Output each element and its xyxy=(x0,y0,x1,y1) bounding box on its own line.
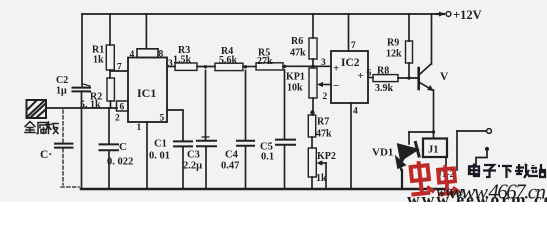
wire emitter to diode top xyxy=(409,131,434,133)
wire R3 to R4 xyxy=(197,66,215,68)
resistor R2 xyxy=(107,78,114,108)
node emitter-diode junction xyxy=(432,130,435,133)
wire IC1 pin5 to C1 xyxy=(167,110,183,141)
watermark site name (Chinese, dark) xyxy=(469,164,546,179)
node KP1-R7 junction xyxy=(310,110,314,114)
node R6-KP1 junction xyxy=(311,65,314,68)
wire R4 to R5 xyxy=(243,66,256,68)
wire metal plate to IC1 pin6/R2 node xyxy=(46,107,117,109)
metal plate sensor xyxy=(27,100,47,118)
capacitor C5 xyxy=(276,140,295,189)
op-amp IC2 xyxy=(331,14,373,189)
wire node B down to C4 xyxy=(245,70,247,140)
watermark bug 2 (Chinese chong, red) xyxy=(436,164,459,194)
node R5/C5 junction xyxy=(283,65,286,68)
node +12V terminal xyxy=(437,12,451,17)
glyph zhan xyxy=(530,164,546,177)
wire left rail down to C2 xyxy=(81,14,83,86)
capacitor C3 electrolytic xyxy=(197,134,216,190)
resistor R6 xyxy=(309,14,317,66)
label metal plate (Chinese) xyxy=(25,122,58,134)
capacitor C' (stray, dashed) xyxy=(55,110,79,187)
glyph dian xyxy=(469,164,480,177)
resistor R8 xyxy=(373,75,417,82)
watermark bug 1 (Chinese chong, red) xyxy=(408,160,434,195)
node R3-R4/C3 junction xyxy=(204,65,207,68)
capacitor C1 xyxy=(174,141,192,188)
wire C2 bottom down to ground rail xyxy=(81,91,83,188)
op-amp IC1 (timer) xyxy=(117,14,168,122)
potentiometer KP2 xyxy=(308,148,326,189)
glyph jin xyxy=(25,122,35,133)
wire node C down to C5 xyxy=(284,70,286,139)
node R4-R5/C4 junction xyxy=(244,65,247,68)
node R9-base junction xyxy=(407,76,410,79)
scan noise overlay xyxy=(0,0,1,1)
glyph xia (with dash) xyxy=(498,166,512,178)
wire R5 to KP1 node and IC2 pin3 xyxy=(283,65,331,67)
transistor V xyxy=(419,14,434,139)
resistor R4 xyxy=(215,63,243,70)
wire node A down to C3 xyxy=(205,70,207,140)
capacitor C4 xyxy=(237,141,254,189)
glyph zi xyxy=(483,165,496,177)
wire +12V top rail xyxy=(82,13,444,15)
resistor R5 xyxy=(256,63,283,70)
ground bottom rail xyxy=(81,188,448,191)
resistor R9 xyxy=(406,14,413,78)
capacitor C 0.022 xyxy=(100,108,119,189)
resistor R3 xyxy=(175,63,197,70)
diode VD1 xyxy=(396,132,419,188)
potentiometer KP1 xyxy=(309,68,331,115)
relay contact J1-2 xyxy=(470,147,489,174)
wire IC1 pin1 to ground xyxy=(146,122,148,189)
relay contact J1-1 xyxy=(457,129,491,170)
wire IC1 pin3 stub xyxy=(167,66,175,68)
resistor R1 xyxy=(106,14,114,78)
glyph ban xyxy=(46,122,58,134)
relay coil J1 xyxy=(423,139,447,189)
wire pin7 stub xyxy=(110,70,128,72)
glyph zai xyxy=(515,164,530,178)
glyph shu xyxy=(37,123,47,134)
resistor R7 xyxy=(308,115,315,148)
capacitor C2 xyxy=(73,84,91,91)
